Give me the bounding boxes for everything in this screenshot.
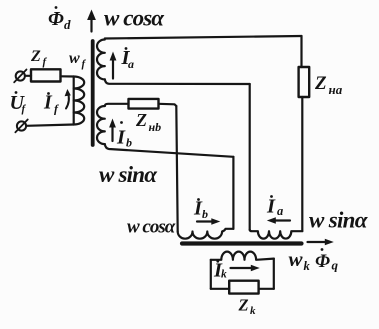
wire (I_b coil bottom lead, slopes right) [105,144,234,157]
svg-text:на: на [329,82,343,97]
wire (down to Z_na) [300,36,302,67]
wire (Z_f to w_f coil) [61,75,74,77]
terminal (top, slashed circle) [16,71,25,80]
current direction arrow I_f (curved) [66,93,69,109]
resistor Z_f [31,69,61,81]
label I_b (lower) [193,198,208,222]
svg-text:q: q [332,258,339,273]
label Z_nb [135,110,161,134]
label I_k [213,260,227,282]
wire (k-loop bottom right) [259,288,274,290]
svg-text:Z: Z [30,48,41,65]
flux Phi_q arrow [308,241,328,243]
resistor Z_k [229,281,258,294]
wire (w_f coil bottom lead) [27,125,74,126]
svg-text:w: w [69,50,80,67]
winding w_f (field coil, bumps right) [73,77,75,125]
svg-text:d: d [64,17,71,32]
current arrow I_b lower (right) [197,220,213,222]
current arrow I_k (right) [231,267,254,269]
winding I_a lower (on q-core) [250,230,303,239]
svg-text:w cosα: w cosα [104,6,165,31]
wire top (cos winding top lead to Z_na) [105,36,302,39]
svg-text:w sinα: w sinα [99,162,158,187]
label w cos alpha (top) [104,6,165,31]
svg-text:I: I [266,196,276,218]
label w sin alpha (middle left) [99,162,158,187]
svg-text:b: b [126,136,132,150]
wire (I_a coil bottom lead) [105,79,250,84]
label I_f [43,92,59,116]
winding w-cos-alpha (I_a coil on d-core) [97,40,105,80]
wire (Z_na down to lower a-coil) [301,97,303,231]
current arrow I_b (up) [111,125,113,141]
svg-text:f: f [54,102,59,116]
current arrow I_a (up) [112,59,114,79]
svg-text:I: I [116,127,126,149]
svg-text:k: k [221,269,227,281]
svg-text:Z: Z [238,296,249,315]
svg-text:w: w [289,247,304,271]
wire (k-loop left side) [210,260,212,289]
core q-axis (horizontal magnetic core line) [182,241,302,245]
resistor Z_nb [129,99,159,109]
label w_f [69,50,87,70]
label w sin alpha (right) [309,208,369,233]
wire (k-loop bottom left) [211,288,229,290]
label I_a (lower) [266,195,283,218]
svg-text:a: a [128,57,134,71]
svg-text:f: f [82,58,87,70]
label Phi_d [48,6,71,32]
svg-text:b: b [202,207,208,221]
svg-text:f: f [43,56,48,68]
winding I_b (on d-core, sine winding) [97,106,105,144]
winding I_b lower (on q-core) [178,229,234,239]
svg-text:w cosα: w cosα [127,217,176,238]
winding w_k (damper coil, bumps up) [211,252,274,260]
svg-text:k: k [250,305,256,317]
wire (I_b coil top lead) [105,104,129,106]
svg-text:a: a [277,204,283,218]
resistor Z_na [299,67,310,97]
label Z_k [238,296,257,318]
svg-text:Φ: Φ [315,251,330,272]
label U_f [10,91,27,115]
flux Phi_d arrow [90,17,92,32]
label w_k [289,247,311,273]
wire (terminal to Z_f) [25,75,31,77]
wire (down to lower b-coil right end) [232,157,234,229]
svg-text:Z: Z [135,110,147,130]
core d-axis (vertical magnetic core line) [91,41,95,145]
label I_b (upper) [116,121,132,149]
svg-text:нb: нb [149,120,162,134]
wire (Z_nb to right then down) [159,104,177,106]
svg-text:f: f [22,103,27,115]
label I_a (top) [121,47,135,71]
label Z_na [314,73,343,97]
svg-text:k: k [304,259,311,273]
svg-text:Z: Z [314,73,327,94]
svg-text:Φ: Φ [48,8,64,30]
terminal (bottom, slashed circle) [17,121,26,130]
wire (upper a-coil to lower a-coil, left side) [249,84,251,230]
current arrow I_a lower (left) [274,219,290,221]
label Phi_q [315,248,339,272]
wire (k-loop right side) [273,259,275,289]
label w cos alpha (bottom left) [127,217,176,238]
label Z_f [30,48,48,68]
svg-text:w sinα: w sinα [309,208,369,233]
